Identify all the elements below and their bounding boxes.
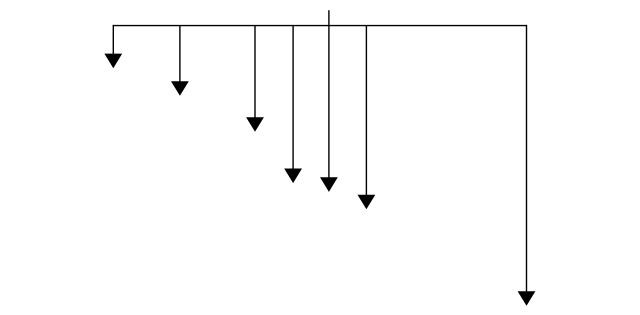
arrowhead 1 [104, 54, 122, 69]
wire: drop line 1 [112, 25, 114, 54]
arrowhead 2 [171, 81, 189, 96]
arrowhead 6 [358, 195, 376, 210]
arrowhead 5 [320, 177, 338, 192]
arrowhead 7 [518, 291, 536, 306]
wire: drop line 3 [254, 25, 256, 118]
wire: drop line 4 [292, 25, 294, 169]
wire: horizontal bus line [113, 25, 527, 27]
wire: drop line 7 (right) [526, 25, 528, 292]
wire: center vertical stub above bus [328, 10, 330, 25]
wire: drop line 5 (center) [328, 25, 330, 178]
wire: drop line 2 [179, 25, 181, 82]
arrowhead 4 [284, 169, 302, 184]
arrowhead 3 [246, 117, 264, 132]
wire: drop line 6 [365, 25, 367, 195]
